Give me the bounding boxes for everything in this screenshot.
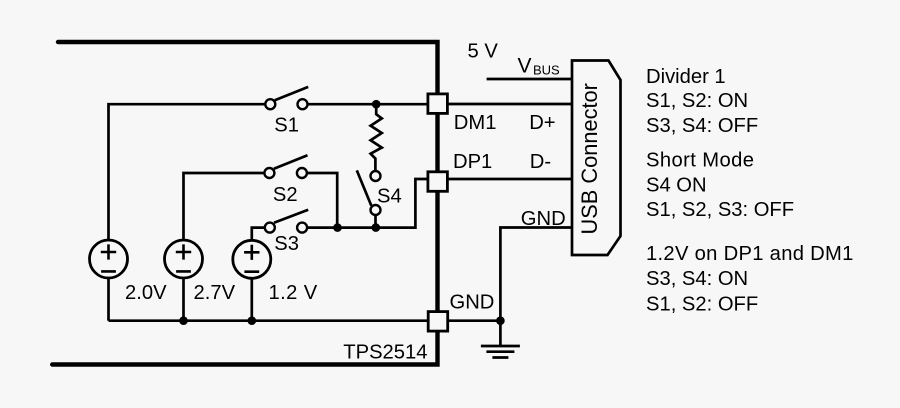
svg-text:TPS2514: TPS2514 [343, 341, 427, 363]
svg-text:S1, S2, S3: OFF: S1, S2, S3: OFF [646, 199, 794, 221]
svg-text:S3, S4: ON: S3, S4: ON [646, 268, 748, 290]
svg-text:Short Mode: Short Mode [646, 150, 754, 172]
svg-text:S1, S2: ON: S1, S2: ON [646, 90, 748, 112]
svg-text:S4 ON: S4 ON [646, 175, 707, 197]
svg-text:Divider 1: Divider 1 [646, 66, 726, 88]
svg-text:GND: GND [521, 208, 566, 230]
svg-text:1.2 V: 1.2 V [269, 282, 318, 304]
svg-text:BUS: BUS [533, 62, 560, 77]
svg-text:S1, S2: OFF: S1, S2: OFF [646, 293, 758, 315]
svg-text:1.2V on DP1 and DM1: 1.2V on DP1 and DM1 [646, 243, 854, 265]
svg-text:S3: S3 [274, 233, 299, 255]
svg-text:5 V: 5 V [468, 40, 499, 62]
svg-text:V: V [518, 54, 532, 77]
svg-text:S4: S4 [377, 186, 402, 208]
svg-text:S2: S2 [273, 184, 298, 206]
svg-text:S1: S1 [274, 115, 299, 137]
svg-text:USB Connector: USB Connector [577, 83, 602, 234]
svg-text:S3, S4: OFF: S3, S4: OFF [646, 115, 758, 137]
svg-text:GND: GND [450, 291, 495, 313]
svg-text:DP1: DP1 [453, 151, 492, 173]
svg-text:2.7V: 2.7V [194, 282, 236, 304]
svg-text:2.0V: 2.0V [125, 282, 167, 304]
svg-text:DM1: DM1 [454, 112, 497, 134]
svg-text:D+: D+ [529, 112, 555, 134]
svg-text:D-: D- [530, 151, 551, 173]
